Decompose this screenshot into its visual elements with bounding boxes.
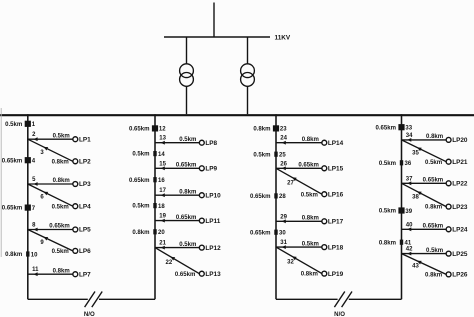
- svg-text:41: 41: [405, 241, 412, 247]
- svg-text:18: 18: [158, 204, 165, 210]
- node 20 (joint): [153, 229, 156, 234]
- node 7 (section switch): [25, 205, 31, 211]
- svg-text:0.8km: 0.8km: [132, 230, 149, 236]
- node 4 (section switch): [25, 157, 31, 163]
- arrow branch 24: [282, 141, 286, 145]
- svg-text:LP25: LP25: [452, 251, 468, 258]
- svg-text:37: 37: [406, 176, 413, 182]
- wire branch 32 to LP19: [276, 247, 322, 274]
- svg-text:0.5km: 0.5km: [132, 152, 149, 158]
- svg-text:0.5km: 0.5km: [132, 204, 149, 210]
- svg-text:LP6: LP6: [79, 248, 91, 255]
- arrow branch 9: [43, 237, 48, 241]
- lamp LP19: [322, 271, 327, 276]
- svg-text:LP22: LP22: [452, 181, 468, 188]
- svg-text:LP26: LP26: [452, 272, 468, 279]
- svg-text:30: 30: [279, 231, 286, 237]
- svg-text:LP17: LP17: [328, 219, 344, 226]
- wire feeder F3: [275, 114, 277, 299]
- svg-text:0.5km: 0.5km: [425, 160, 442, 166]
- arrow branch 40: [407, 227, 411, 231]
- arrow branch 17: [161, 193, 165, 197]
- arrow branch 27: [292, 177, 297, 181]
- wire branch 8 to LP5: [28, 229, 73, 231]
- arrow branch 35: [417, 147, 422, 151]
- svg-text:22: 22: [166, 260, 173, 266]
- svg-text:0.8km: 0.8km: [425, 273, 442, 279]
- arrow branch 31: [282, 245, 286, 249]
- wire branch 6 to LP4: [28, 184, 73, 206]
- node 36 (joint): [400, 160, 403, 165]
- lamp LP4: [73, 204, 78, 209]
- arrow branch 13: [161, 141, 165, 145]
- svg-text:0.65km: 0.65km: [129, 127, 150, 133]
- arrow branch 34: [407, 138, 411, 142]
- wire branch 3 to LP2: [28, 139, 73, 161]
- svg-text:0.8km: 0.8km: [179, 189, 196, 195]
- svg-text:20: 20: [158, 230, 165, 236]
- svg-text:LP16: LP16: [328, 191, 344, 198]
- svg-text:0.65km: 0.65km: [250, 230, 271, 236]
- svg-text:17: 17: [159, 188, 166, 194]
- svg-text:LP20: LP20: [452, 137, 468, 144]
- svg-text:0.5km: 0.5km: [179, 137, 196, 143]
- lamp LP8: [199, 140, 204, 145]
- svg-text:LP4: LP4: [79, 203, 91, 210]
- svg-text:27: 27: [287, 180, 294, 186]
- lamp LP24: [446, 227, 451, 232]
- arrow branch 3: [43, 147, 48, 151]
- wire ring bottom right part (F1): [99, 298, 155, 300]
- wire branch 38 to LP23: [402, 183, 447, 206]
- svg-text:LP15: LP15: [328, 166, 344, 173]
- svg-text:0.5km: 0.5km: [302, 241, 319, 247]
- svg-text:11: 11: [32, 267, 39, 273]
- lamp LP2: [73, 159, 78, 164]
- node 10 (joint): [26, 251, 29, 256]
- wire branch 17 to LP10: [155, 194, 199, 196]
- lamp LP16: [322, 192, 327, 197]
- svg-text:0.65km: 0.65km: [423, 224, 444, 230]
- svg-text:11KV: 11KV: [275, 34, 291, 41]
- lamp LP13: [199, 271, 204, 276]
- svg-text:0.65km: 0.65km: [176, 215, 197, 221]
- svg-text:19: 19: [159, 214, 166, 220]
- wire branch 27 to LP16: [276, 168, 322, 194]
- wire branch 21 to LP12: [155, 247, 199, 249]
- wire branch 37 to LP22: [402, 182, 447, 184]
- arrow branch 26: [282, 166, 286, 170]
- svg-text:0.65km: 0.65km: [2, 206, 23, 212]
- N/O break point F1 ring: [85, 292, 95, 308]
- svg-text:0.8km: 0.8km: [379, 240, 396, 246]
- node 1 (section switch): [25, 121, 31, 127]
- lamp LP21: [446, 159, 451, 164]
- svg-text:23: 23: [280, 127, 287, 133]
- wire branch 15 to LP9: [155, 167, 199, 169]
- svg-text:0.8km: 0.8km: [426, 134, 443, 140]
- wire branch 19 to LP11: [155, 220, 199, 222]
- lamp LP12: [199, 245, 204, 250]
- arrow branch 29: [282, 219, 286, 223]
- svg-text:43: 43: [412, 264, 419, 270]
- arrow branch 8: [33, 228, 37, 232]
- svg-text:0.5km: 0.5km: [53, 133, 70, 139]
- svg-text:25: 25: [279, 153, 286, 159]
- svg-text:0.5km: 0.5km: [52, 204, 69, 210]
- svg-text:LP11: LP11: [205, 218, 220, 225]
- lamp LP3: [73, 182, 78, 187]
- svg-text:0.8km: 0.8km: [302, 137, 319, 143]
- arrow branch 43: [417, 261, 422, 265]
- arrow branch 37: [407, 181, 411, 185]
- wire branch 40 to LP24: [402, 228, 447, 230]
- svg-text:LP23: LP23: [452, 204, 468, 211]
- arrow branch 38: [417, 191, 422, 195]
- lamp LP20: [446, 137, 451, 142]
- wire branch 29 to LP17: [276, 220, 322, 222]
- wire branch 43 to LP26: [402, 254, 447, 275]
- lamp LP14: [322, 140, 327, 145]
- wire feeder F4: [401, 114, 403, 299]
- svg-text:0.8km: 0.8km: [53, 268, 70, 274]
- wire branch 9 to LP6: [28, 230, 73, 251]
- wire ring bottom left part (F1): [28, 298, 88, 300]
- svg-text:0.8km: 0.8km: [301, 272, 318, 278]
- svg-text:31: 31: [280, 240, 287, 246]
- node 23 (section switch): [273, 125, 279, 131]
- wire T2 secondary: [247, 86, 249, 114]
- svg-text:0.65km: 0.65km: [175, 272, 196, 278]
- svg-text:LP5: LP5: [79, 227, 91, 234]
- svg-text:0.8km: 0.8km: [53, 178, 70, 184]
- arrow branch 11: [33, 272, 37, 276]
- svg-text:21: 21: [159, 241, 166, 247]
- svg-text:26: 26: [280, 161, 287, 167]
- svg-text:0.65km: 0.65km: [298, 163, 319, 169]
- wire branch 5 to LP3: [28, 183, 73, 185]
- svg-text:LP19: LP19: [328, 271, 344, 278]
- node 12 (section switch): [152, 125, 158, 131]
- node 33 (section switch): [398, 124, 404, 130]
- svg-text:14: 14: [158, 152, 165, 158]
- lamp LP1: [73, 137, 78, 142]
- lamp LP6: [73, 248, 78, 253]
- svg-text:39: 39: [405, 209, 412, 215]
- wire incoming supply: [213, 3, 215, 38]
- node 28 (joint): [274, 193, 277, 198]
- lamp LP15: [322, 166, 327, 171]
- transformer T1: [180, 64, 194, 78]
- svg-text:0.8km: 0.8km: [5, 252, 22, 258]
- wire branch 2 to LP1: [28, 138, 73, 140]
- svg-text:0.5km: 0.5km: [301, 192, 318, 198]
- wire T1 secondary: [186, 86, 188, 114]
- bus 11KV: [164, 36, 270, 38]
- svg-text:LP3: LP3: [79, 181, 91, 188]
- lamp LP22: [446, 181, 451, 186]
- svg-text:0.5km: 0.5km: [379, 161, 396, 167]
- svg-text:29: 29: [280, 214, 287, 220]
- arrow branch 2: [33, 137, 37, 141]
- wire branch 11 to LP7: [28, 273, 73, 275]
- svg-text:32: 32: [287, 259, 294, 265]
- svg-text:0.65km: 0.65km: [129, 178, 150, 184]
- svg-text:N/O: N/O: [334, 311, 345, 317]
- svg-text:24: 24: [280, 136, 287, 142]
- svg-text:0.65km: 0.65km: [176, 163, 197, 169]
- wire T1 primary: [186, 37, 188, 64]
- lamp LP10: [199, 193, 204, 198]
- main LV bus: [0, 114, 474, 116]
- svg-text:0.5km: 0.5km: [5, 122, 22, 128]
- wire branch 31 to LP18: [276, 246, 322, 248]
- wire branch 24 to LP14: [276, 142, 322, 144]
- wire ring bottom left part (F3): [276, 298, 338, 300]
- lamp LP7: [73, 272, 78, 277]
- svg-text:13: 13: [159, 136, 166, 142]
- svg-text:36: 36: [405, 161, 412, 167]
- svg-text:0.8km: 0.8km: [425, 205, 442, 211]
- lamp LP26: [446, 272, 451, 277]
- svg-text:0.5km: 0.5km: [179, 242, 196, 248]
- svg-text:0.8km: 0.8km: [253, 127, 270, 133]
- svg-text:0.65km: 0.65km: [423, 178, 444, 184]
- node 16 (joint): [153, 177, 156, 182]
- svg-text:35: 35: [412, 150, 419, 156]
- node 14 (joint): [153, 151, 156, 156]
- wire branch 42 to LP25: [402, 253, 447, 255]
- svg-text:LP12: LP12: [205, 245, 221, 252]
- svg-text:0.8km: 0.8km: [302, 216, 319, 222]
- arrow branch 15: [161, 166, 165, 170]
- svg-text:LP10: LP10: [205, 192, 221, 199]
- wire branch 35 to LP21: [402, 140, 447, 162]
- arrow branch 5: [33, 182, 37, 186]
- node 25 (joint): [274, 152, 277, 157]
- lamp LP5: [73, 227, 78, 232]
- node 18 (joint): [153, 203, 156, 208]
- svg-text:40: 40: [406, 222, 413, 228]
- node 30 (joint): [274, 230, 277, 235]
- lamp LP17: [322, 219, 327, 224]
- node 39 (section switch): [398, 207, 404, 213]
- wire branch 26 to LP15: [276, 167, 322, 169]
- wire branch 34 to LP20: [402, 139, 447, 141]
- wire branch 22 to LP13: [155, 248, 199, 274]
- arrow branch 32: [292, 256, 297, 260]
- svg-text:LP2: LP2: [79, 159, 91, 166]
- svg-text:0.65km: 0.65km: [2, 158, 23, 164]
- svg-text:0.65km: 0.65km: [250, 194, 271, 200]
- svg-text:34: 34: [406, 133, 413, 139]
- svg-text:LP14: LP14: [328, 140, 344, 147]
- svg-text:LP7: LP7: [79, 271, 91, 278]
- svg-text:LP13: LP13: [205, 271, 221, 278]
- node 41 (joint): [400, 240, 403, 245]
- svg-text:38: 38: [412, 194, 419, 200]
- svg-text:N/O: N/O: [84, 311, 95, 317]
- N/O break point F3 ring: [334, 292, 344, 308]
- lamp LP23: [446, 204, 451, 209]
- svg-text:15: 15: [159, 161, 166, 167]
- svg-text:0.65km: 0.65km: [49, 224, 70, 230]
- transformer T2: [241, 64, 255, 78]
- wire branch 13 to LP8: [155, 142, 199, 144]
- lamp LP18: [322, 245, 327, 250]
- left edge scan line: [0, 108, 2, 257]
- arrow branch 19: [161, 219, 165, 223]
- svg-text:12: 12: [159, 127, 166, 133]
- wire T2 primary: [247, 37, 249, 64]
- svg-text:LP9: LP9: [205, 166, 217, 173]
- svg-text:LP24: LP24: [452, 227, 468, 234]
- svg-text:LP8: LP8: [205, 140, 217, 147]
- arrow branch 42: [407, 252, 411, 256]
- svg-text:28: 28: [279, 194, 286, 200]
- svg-text:0.65km: 0.65km: [375, 125, 396, 131]
- svg-text:10: 10: [31, 252, 38, 258]
- svg-text:0.5km: 0.5km: [426, 248, 443, 254]
- svg-text:16: 16: [158, 178, 165, 184]
- svg-text:0.5km: 0.5km: [379, 209, 396, 215]
- svg-text:0.5km: 0.5km: [253, 152, 270, 158]
- svg-text:LP18: LP18: [328, 244, 344, 251]
- lamp LP25: [446, 251, 451, 256]
- svg-text:33: 33: [405, 126, 412, 132]
- arrow branch 6: [43, 192, 48, 196]
- arrow branch 21: [161, 246, 165, 250]
- wire feeder F2: [154, 114, 156, 299]
- lamp LP11: [199, 218, 204, 223]
- svg-text:0.8km: 0.8km: [52, 159, 69, 165]
- svg-text:42: 42: [406, 247, 413, 253]
- svg-text:LP1: LP1: [79, 136, 91, 143]
- svg-text:LP21: LP21: [452, 159, 468, 166]
- lamp LP9: [199, 166, 204, 171]
- wire feeder F1: [27, 114, 29, 299]
- svg-text:0.5km: 0.5km: [52, 249, 69, 255]
- wire ring bottom right part (F3): [349, 298, 402, 300]
- arrow branch 22: [170, 257, 175, 261]
